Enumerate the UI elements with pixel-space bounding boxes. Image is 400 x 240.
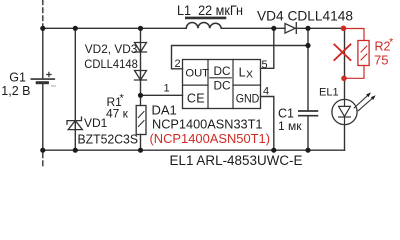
wire bottom rail bbox=[43, 149, 345, 151]
svg-text:1 мк: 1 мк bbox=[278, 119, 302, 133]
LED EL1 bbox=[332, 99, 357, 124]
svg-text:NCP1400ASN33T1: NCP1400ASN33T1 bbox=[152, 117, 263, 132]
red X cut mark bbox=[334, 45, 350, 61]
diode VD4 bbox=[285, 23, 296, 34]
svg-text:*: * bbox=[120, 93, 125, 105]
svg-text:L1 22 мкГн: L1 22 мкГн bbox=[177, 3, 243, 18]
node C1 bottom bbox=[305, 148, 310, 153]
svg-text:CDLL4148: CDLL4148 bbox=[84, 57, 138, 71]
svg-text:BZT52C3S: BZT52C3S bbox=[78, 132, 139, 146]
node CE junction bbox=[138, 93, 143, 98]
node Lx L1 VD4 junction bbox=[271, 26, 276, 31]
wire pin 5 Lx net bbox=[261, 28, 274, 68]
svg-text:G1: G1 bbox=[9, 70, 26, 84]
wire VD2 branch vertical bbox=[140, 28, 142, 105]
node OUT sense junction bbox=[305, 43, 310, 48]
svg-text:1: 1 bbox=[164, 83, 170, 95]
svg-text:DA1: DA1 bbox=[152, 103, 177, 118]
node bottom left corner bbox=[40, 148, 45, 153]
diode VD2 bbox=[135, 43, 147, 53]
zener diode VD1 bbox=[67, 28, 82, 150]
svg-text:75: 75 bbox=[374, 53, 388, 68]
battery plus sign bbox=[47, 72, 51, 76]
svg-text:EL1 ARL-4853UWC-E: EL1 ARL-4853UWC-E bbox=[170, 153, 303, 168]
wire top rail right segment bbox=[298, 27, 344, 29]
svg-text:OUT: OUT bbox=[185, 68, 209, 80]
svg-text:CE: CE bbox=[187, 92, 205, 106]
node VD2 top bbox=[138, 26, 143, 31]
node GND bottom bbox=[271, 148, 276, 153]
svg-text:2: 2 bbox=[175, 58, 181, 70]
svg-text:47 к: 47 к bbox=[106, 107, 129, 121]
inductor L1 bbox=[186, 18, 225, 28]
svg-text:1,2 В: 1,2 В bbox=[1, 84, 30, 98]
svg-text:DC: DC bbox=[214, 78, 232, 92]
wire top rail middle segment bbox=[221, 27, 285, 29]
svg-text:*: * bbox=[389, 37, 394, 49]
svg-text:VD4 CDLL4148: VD4 CDLL4148 bbox=[257, 8, 353, 24]
node VD1 top bbox=[73, 26, 78, 31]
node red top junction bbox=[341, 26, 347, 32]
LED arrows bbox=[354, 92, 376, 110]
node R1 bottom bbox=[138, 148, 143, 153]
node red bottom junction bbox=[341, 76, 347, 82]
node top left corner bbox=[40, 26, 45, 31]
svg-text:(NCP1400ASN50T1): (NCP1400ASN50T1) bbox=[150, 131, 271, 146]
svg-text:LX: LX bbox=[239, 65, 253, 80]
wire pin 4 GND net bbox=[261, 97, 274, 151]
wire dashed top lead bbox=[42, 0, 44, 26]
svg-text:GND: GND bbox=[236, 92, 260, 106]
wire CE stub pin 1 bbox=[141, 94, 183, 96]
diode VD3 bbox=[135, 71, 147, 81]
wire dashed bottom lead bbox=[42, 153, 44, 169]
svg-text:4: 4 bbox=[263, 86, 269, 98]
node VD4 output top bbox=[305, 26, 310, 31]
svg-text:VD2, VD3: VD2, VD3 bbox=[85, 42, 138, 56]
capacitor C1 bbox=[299, 28, 318, 150]
wire left rail bbox=[42, 28, 44, 150]
node VD1 bottom bbox=[73, 148, 78, 153]
battery G1 bbox=[31, 79, 55, 86]
svg-text:VD1: VD1 bbox=[84, 116, 108, 130]
svg-text:5: 5 bbox=[262, 59, 268, 71]
wire top rail left segment bbox=[43, 27, 187, 29]
IC DA1 box bbox=[183, 60, 261, 109]
wire pin 2 OUT net bbox=[172, 46, 309, 69]
svg-text:DC: DC bbox=[214, 64, 232, 78]
resistor R1 bbox=[136, 106, 146, 151]
svg-text:EL1: EL1 bbox=[319, 87, 339, 99]
resistor R2 red bbox=[344, 29, 369, 79]
wire EL1 branch vertical bbox=[344, 28, 346, 150]
